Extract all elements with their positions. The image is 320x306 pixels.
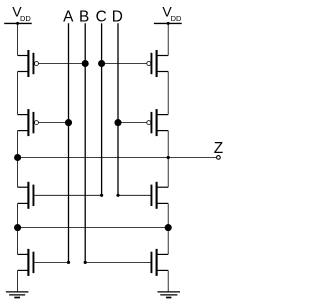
wire input line B: [84, 23, 86, 262]
wire gate N3 to line A: [34, 261, 68, 263]
label VDD right: [162, 4, 182, 24]
wire right rail N2 to N4 (through mid node): [167, 203, 169, 254]
transistor P4 (PMOS, gate D, second right): [147, 109, 168, 136]
wire gate N2 to line D: [118, 194, 151, 196]
junction dot gate N1 on C: [100, 194, 103, 197]
junction dot gate P1 on B: [82, 60, 89, 67]
junction dot mid node right: [165, 224, 172, 231]
power symbol VDD left: [4, 22, 32, 24]
wire mid node row (between series NMOS pairs): [18, 227, 169, 229]
wire right rail P4 to N2 (through output node): [167, 131, 169, 188]
svg-text:B: B: [79, 9, 89, 26]
transistor N2 (NMOS, gate D, third right): [151, 182, 168, 209]
transistor N1 (NMOS, gate C, third left): [18, 182, 34, 209]
junction dot gate P3 on A: [65, 119, 72, 126]
transistor P3 (PMOS, gate A, second left): [18, 109, 39, 136]
wire gate P4 to line D: [118, 122, 147, 124]
svg-text:A: A: [63, 9, 74, 26]
svg-text:D: D: [112, 9, 123, 26]
wire input line C: [101, 23, 103, 195]
wire input line A: [68, 23, 70, 262]
wire gate N1 to line C: [34, 194, 101, 196]
wire left rail P1 to P3: [17, 72, 19, 115]
wire input line D: [117, 23, 119, 195]
junction dot gate N2 on D: [116, 194, 119, 197]
junction dot gate P4 on D: [114, 119, 121, 126]
label VDD left: [12, 4, 31, 24]
transistor P1 (PMOS, gate B, top left): [18, 50, 39, 77]
junction dot mid node left: [14, 224, 21, 231]
wire right rail P2 to P4: [167, 72, 169, 115]
terminal Z: [217, 156, 221, 160]
wire gate N4 to line B: [85, 261, 150, 263]
junction dot gate N3 on A: [67, 261, 70, 264]
wire output node Z row: [18, 157, 217, 159]
ground symbol right: [158, 292, 181, 298]
wire right rail VDD to P2: [167, 23, 169, 55]
wire left rail N1 to N3 (through mid node): [17, 203, 19, 254]
wire left rail N3 to ground: [17, 270, 19, 292]
junction dot gate N4 on B: [84, 261, 87, 264]
transistor N4 (NMOS, gate B, bottom right): [151, 249, 168, 276]
junction dot output left rail: [14, 154, 21, 161]
transistor N3 (NMOS, gate A, bottom left): [18, 249, 34, 276]
power symbol VDD right: [154, 22, 182, 24]
wire right rail N4 to ground: [167, 270, 169, 292]
junction dot VDD right: [167, 22, 170, 25]
junction dot VDD left: [16, 22, 19, 25]
wire gate P1 to line B: [38, 63, 85, 65]
junction dot output right rail: [167, 156, 170, 159]
svg-text:C: C: [96, 9, 107, 26]
wire gate P2 to line C: [102, 63, 147, 65]
svg-text:DD: DD: [171, 14, 182, 23]
svg-text:Z: Z: [214, 140, 223, 157]
svg-text:DD: DD: [20, 14, 31, 23]
wire left rail VDD to P1: [17, 23, 19, 55]
junction dot gate P2 on C: [98, 60, 105, 67]
wire gate P3 to line A: [38, 122, 68, 124]
wire left rail P3 to N1 (through output node): [17, 131, 19, 188]
ground symbol left: [6, 292, 29, 298]
transistor P2 (PMOS, gate C, top right): [147, 50, 168, 77]
